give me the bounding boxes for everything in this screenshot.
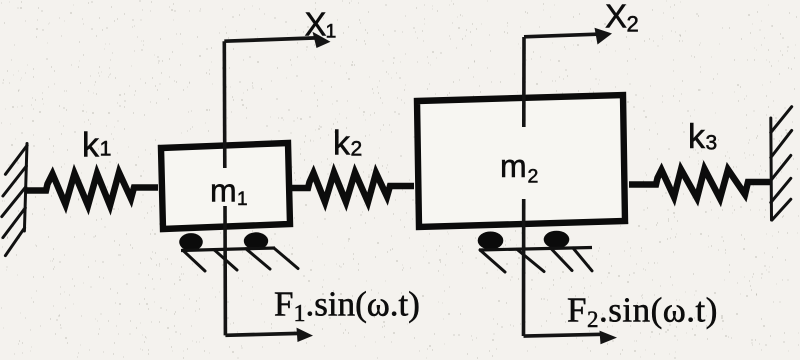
svg-text:X: X xyxy=(605,0,627,35)
svg-text:1: 1 xyxy=(326,21,337,43)
wall right xyxy=(771,107,792,220)
label m2 xyxy=(500,148,538,188)
svg-text:k: k xyxy=(688,118,706,156)
wheel m1 left xyxy=(179,233,203,251)
svg-text:m: m xyxy=(210,173,237,209)
label k1 xyxy=(82,127,111,165)
displacement arrow X1 xyxy=(224,32,330,48)
ground hatching m1 xyxy=(183,248,298,271)
svg-text:1: 1 xyxy=(237,189,248,210)
svg-text:2: 2 xyxy=(351,138,363,161)
displacement arrow X2 xyxy=(524,28,612,45)
force arrow F1 xyxy=(225,328,313,342)
mass m2 xyxy=(417,95,625,227)
force arrow F2 xyxy=(524,331,618,345)
label m1 xyxy=(210,173,248,211)
wheel m1 right xyxy=(244,232,268,249)
svg-text:k: k xyxy=(82,127,100,165)
ground line m2 xyxy=(479,248,592,251)
wheel m2 left xyxy=(478,232,504,250)
svg-text:m: m xyxy=(500,148,527,184)
label X1 xyxy=(305,6,337,43)
spring k3 xyxy=(629,169,770,199)
svg-text:k: k xyxy=(333,125,351,163)
svg-text:2: 2 xyxy=(528,166,539,188)
label k3 xyxy=(688,118,717,156)
svg-text:1: 1 xyxy=(100,137,112,161)
axis line through m1 xyxy=(224,41,225,335)
wheel m2 right xyxy=(544,231,570,249)
label X2 xyxy=(605,0,639,37)
svg-text:X: X xyxy=(305,6,327,43)
ground line m1 xyxy=(181,248,275,251)
svg-text:2: 2 xyxy=(627,12,639,37)
axis line through m2 xyxy=(522,37,526,336)
label k2 xyxy=(333,125,362,163)
spring k2 xyxy=(290,173,414,203)
ground hatching m2 xyxy=(480,248,592,272)
spring k1 xyxy=(25,173,158,206)
wall left xyxy=(2,144,27,256)
mass m1 xyxy=(161,143,290,229)
svg-text:3: 3 xyxy=(706,132,718,155)
